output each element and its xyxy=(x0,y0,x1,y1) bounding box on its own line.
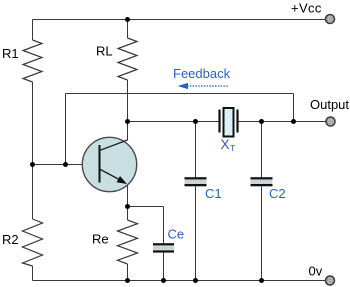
svg-text:Re: Re xyxy=(92,232,109,247)
svg-text:R2: R2 xyxy=(2,232,19,247)
svg-text:Ce: Ce xyxy=(168,227,185,242)
svg-text:Feedback: Feedback xyxy=(173,66,231,81)
svg-text:X: X xyxy=(221,137,230,152)
svg-text:T: T xyxy=(230,143,235,153)
svg-text:Output: Output xyxy=(310,97,349,112)
svg-text:C2: C2 xyxy=(269,186,286,201)
svg-text:RL: RL xyxy=(96,44,113,59)
svg-text:+Vcc: +Vcc xyxy=(291,1,322,16)
svg-text:R1: R1 xyxy=(2,46,19,61)
svg-text:C1: C1 xyxy=(205,186,222,201)
svg-text:0v: 0v xyxy=(309,264,323,279)
